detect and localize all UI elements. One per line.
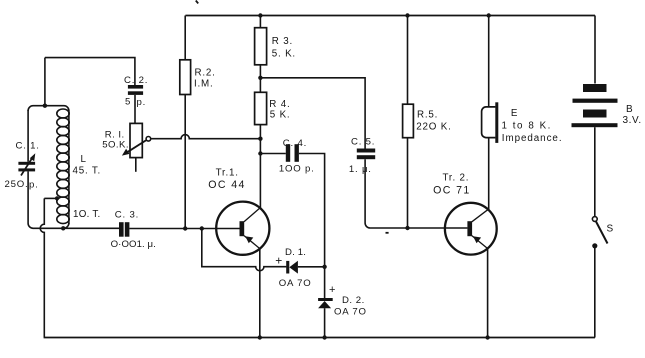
node R3 top on rail xyxy=(258,13,262,17)
label OA 70 (D2) xyxy=(334,307,367,318)
svg-text:C. 1.: C. 1. xyxy=(16,140,40,151)
label E xyxy=(511,108,518,119)
label C. 5. xyxy=(351,136,375,147)
svg-text:S: S xyxy=(607,224,615,235)
wire C1 to tank bottom rail xyxy=(28,171,33,228)
transistor Q2 Tr.2 OC71 circle xyxy=(445,203,497,255)
node collector C4 branch junction xyxy=(258,151,262,155)
resistor R2 1M xyxy=(180,16,191,229)
diode D1 OA70 xyxy=(286,261,298,274)
svg-text:5O.K.: 5O.K. xyxy=(102,140,129,151)
node tank top junction xyxy=(43,104,47,108)
inductor L 45T coil xyxy=(57,109,69,228)
label R.5. xyxy=(417,110,438,121)
label + (D2) xyxy=(329,284,335,296)
svg-text:I.M.: I.M. xyxy=(194,79,214,90)
label C. 3. xyxy=(115,210,139,221)
wire battery bottom to switch xyxy=(594,127,596,217)
wire coil tap horizontal 10T xyxy=(44,197,57,199)
transistor Q1 base bar xyxy=(240,221,245,236)
svg-text:+: + xyxy=(329,284,335,296)
transistor Q2 base bar xyxy=(467,221,472,236)
potentiometer R1 wiper arrow xyxy=(122,137,151,156)
wire bottom ground rail xyxy=(44,337,595,339)
svg-text:3.V.: 3.V. xyxy=(623,115,642,126)
node E top on rail xyxy=(487,13,491,17)
label OC 71 xyxy=(433,185,471,197)
wire Tr1 emitter to bottom rail xyxy=(259,249,261,338)
node coil bottom on tank rail xyxy=(61,226,65,230)
wire right column: battery top lead xyxy=(594,16,596,84)
label 3.V. xyxy=(623,115,642,126)
transistor Q2 collector lead xyxy=(472,209,489,222)
svg-text:E: E xyxy=(511,108,518,119)
label Tr.1. xyxy=(216,168,239,179)
wire C4 branch left xyxy=(260,153,285,155)
svg-text:1OO p.: 1OO p. xyxy=(279,164,315,175)
wire top supply rail xyxy=(185,15,595,17)
label OC 44 xyxy=(208,179,246,191)
label 100 p. xyxy=(279,164,315,175)
battery B 3V xyxy=(572,84,618,127)
label C.2. xyxy=(124,75,148,86)
wire left column (coil tap to bottom rail, hops over tank rail) xyxy=(40,198,44,337)
svg-text:R 4.: R 4. xyxy=(269,99,290,110)
svg-text:OC 44: OC 44 xyxy=(208,179,246,191)
wire C2 to R1 xyxy=(134,95,136,124)
wire R3R4 junction to C5 top xyxy=(260,78,365,149)
label 1 to 8 K. xyxy=(502,120,552,131)
svg-text:C. 2.: C. 2. xyxy=(124,75,148,86)
label 10. T. xyxy=(73,209,100,220)
wire tank bottom rail to C3 xyxy=(33,227,119,229)
capacitor C4 100p xyxy=(286,144,299,162)
svg-text:R 3.: R 3. xyxy=(272,36,293,47)
capacitor C3 0.001u xyxy=(119,222,129,237)
label 45. T. xyxy=(73,166,102,177)
label 0.001 u xyxy=(111,239,156,250)
svg-text:R.5.: R.5. xyxy=(417,110,438,121)
variable capacitor C1 250p branch wire upper xyxy=(27,110,29,162)
node emitter on bottom rail xyxy=(258,335,262,339)
node coil tap xyxy=(55,196,59,200)
wire tank top up-link vertical xyxy=(44,58,46,106)
node R5 bottom junction xyxy=(405,226,409,230)
resistor R5 220K xyxy=(403,16,414,229)
capacitor C1 variable arrow xyxy=(21,153,35,175)
label R.2. xyxy=(195,68,216,79)
wire tank circuit top rail xyxy=(28,106,69,111)
node R4 bottom wiper junction xyxy=(258,137,262,141)
resistor R3 5K xyxy=(255,16,267,78)
svg-text:B: B xyxy=(626,104,634,115)
node D1 branch junction xyxy=(200,226,204,230)
transistor Q1 emitter lead with arrow xyxy=(244,236,260,249)
capacitor C1 plates xyxy=(18,162,35,172)
svg-text:OA 7O: OA 7O xyxy=(279,278,312,289)
label D. 2. xyxy=(342,295,365,306)
label R 3. xyxy=(272,36,293,47)
label OA 70 (D1) xyxy=(279,278,312,289)
svg-text:45. T.: 45. T. xyxy=(73,166,102,177)
node D1-C4-D2 junction xyxy=(322,265,326,269)
label 1. u. xyxy=(349,164,372,175)
svg-text:p.: p. xyxy=(29,180,39,191)
svg-text:C. 4.: C. 4. xyxy=(283,138,307,149)
capacitor C2 5p xyxy=(128,85,143,95)
capacitor C5 1u xyxy=(357,149,375,160)
label R. I. xyxy=(105,130,125,141)
label D. 1. xyxy=(285,247,306,258)
svg-text:O·OO1. μ.: O·OO1. μ. xyxy=(111,239,156,250)
resistor R1 bottom stub xyxy=(135,158,137,172)
svg-text:5 K.: 5 K. xyxy=(270,110,291,121)
wire C4 right to D-node xyxy=(299,154,325,267)
label R.4. xyxy=(269,99,290,110)
svg-text:Impedance.: Impedance. xyxy=(502,133,563,144)
label 5O.K. xyxy=(102,140,129,151)
svg-text:Tr.1.: Tr.1. xyxy=(216,168,239,179)
label Impedance. xyxy=(502,133,563,144)
resistor R4 5K xyxy=(255,78,267,208)
svg-text:25O.: 25O. xyxy=(5,179,29,190)
switch S xyxy=(592,217,607,249)
svg-text:22O K.: 22O K. xyxy=(416,121,451,132)
svg-text:D. 2.: D. 2. xyxy=(342,295,365,306)
label L xyxy=(81,154,87,165)
svg-text:5: 5 xyxy=(125,97,131,108)
transistor Q1 Tr.1 OC44 circle xyxy=(216,202,269,255)
label 5 K. (R4) xyxy=(270,110,291,121)
label C. 4. xyxy=(283,138,307,149)
svg-text:D. 1.: D. 1. xyxy=(285,247,306,258)
wire E bottom to Tr2 collector xyxy=(488,138,490,210)
label B xyxy=(626,104,634,115)
svg-text:1O. T.: 1O. T. xyxy=(73,209,100,220)
node R3-R4 junction xyxy=(258,76,262,80)
svg-text:1. μ.: 1. μ. xyxy=(349,164,372,175)
transistor Q1 collector lead xyxy=(244,208,260,222)
node Tr2 emitter on bottom rail xyxy=(485,335,489,339)
transistor Q2 emitter lead with arrow xyxy=(472,236,488,249)
wire D1 to node xyxy=(298,266,325,268)
earpiece E body xyxy=(482,102,499,143)
earpiece E top lead xyxy=(488,16,490,107)
label I.M. xyxy=(194,79,214,90)
label 250. p. xyxy=(5,179,39,191)
node R2 bottom junction xyxy=(183,226,187,230)
svg-text:5. K.: 5. K. xyxy=(272,49,296,60)
svg-text:OA 7O: OA 7O xyxy=(334,307,367,318)
diode D2 OA70 xyxy=(318,267,333,338)
svg-text:OC 71: OC 71 xyxy=(433,185,471,197)
wire C5 bottom to Tr2 base xyxy=(365,159,467,228)
svg-text:R.2.: R.2. xyxy=(195,68,216,79)
node R5 top on rail xyxy=(405,13,409,17)
label 220 K. xyxy=(416,121,451,132)
label C. 1. xyxy=(16,140,40,151)
label 5. K. (R3) xyxy=(272,49,296,60)
label S xyxy=(607,224,615,235)
label + (D1) xyxy=(275,254,282,268)
svg-text:p.: p. xyxy=(137,97,147,108)
svg-text:Tr. 2.: Tr. 2. xyxy=(443,173,470,184)
wire base branch down to D1 (hops over emitter wire) xyxy=(202,229,287,271)
svg-text:C. 5.: C. 5. xyxy=(351,136,375,147)
label Tr. 2. xyxy=(443,173,470,184)
node D2 on bottom rail xyxy=(322,335,326,339)
svg-text:+: + xyxy=(275,254,282,268)
svg-text:L: L xyxy=(81,154,87,165)
wire Tr2 emitter to bottom rail xyxy=(487,249,489,338)
stray speck on base wire xyxy=(386,232,389,234)
potentiometer R1 50K body xyxy=(130,123,142,157)
svg-text:1 to 8 K.: 1 to 8 K. xyxy=(502,120,552,131)
wire C3 to Tr1 base xyxy=(129,228,239,230)
wire R1 wiper to R4 bottom node (hops over R2 line) xyxy=(151,135,261,139)
stray print tick xyxy=(196,1,198,4)
wire top-left horizontal to C2 xyxy=(45,58,135,85)
wire switch to bottom rail xyxy=(594,246,596,338)
label 5 p. xyxy=(125,97,146,109)
svg-text:C. 3.: C. 3. xyxy=(115,210,139,221)
